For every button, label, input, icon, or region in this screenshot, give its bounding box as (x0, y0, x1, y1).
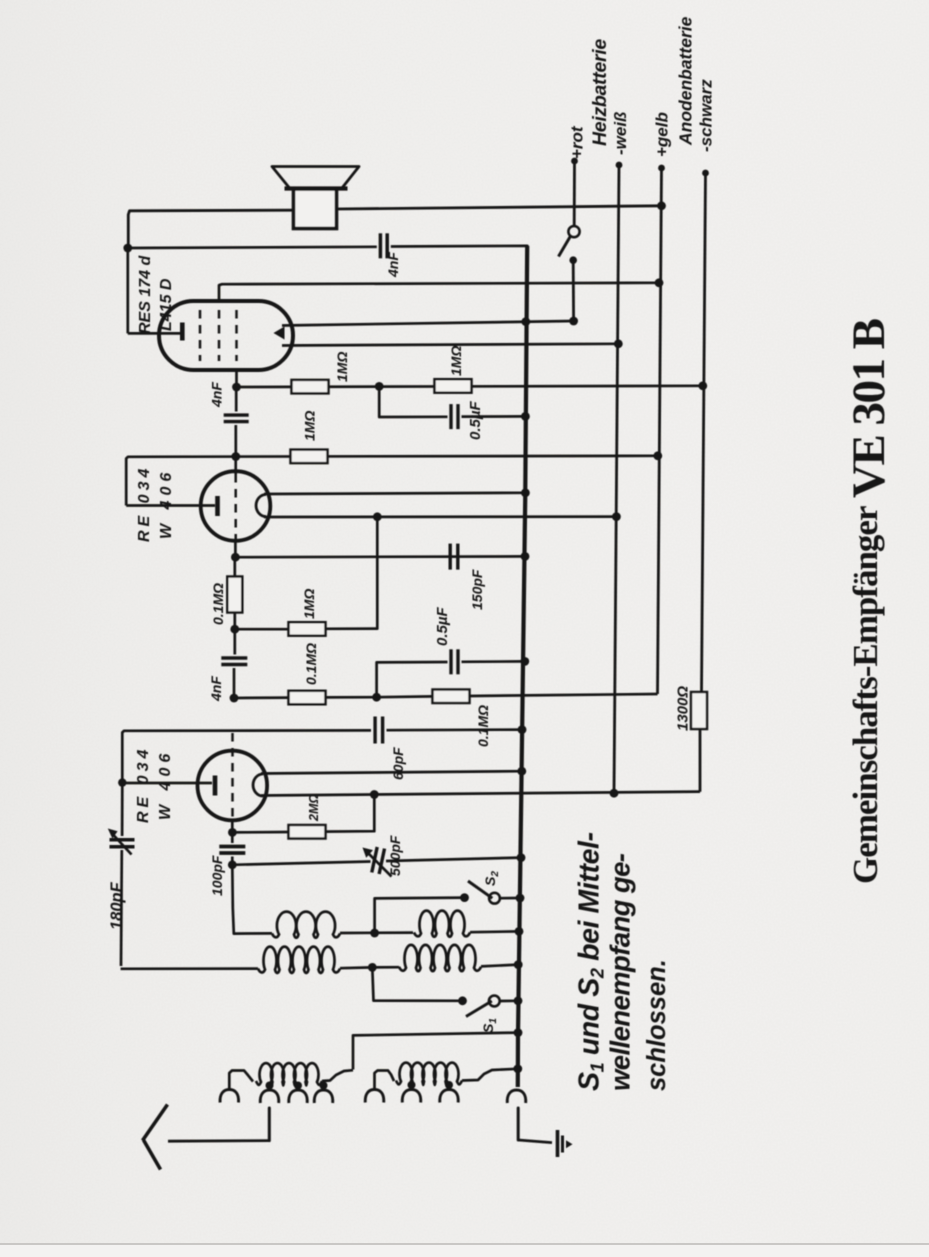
svg-text:1MΩ: 1MΩ (448, 346, 464, 376)
svg-text:0.5µF: 0.5µF (467, 400, 484, 440)
svg-text:0.1MΩ: 0.1MΩ (210, 583, 226, 625)
antenna coil right with taps (375, 1071, 395, 1091)
antenna coil left with taps (229, 1071, 253, 1091)
wire+coil row2 (RF transformer primary) (121, 967, 258, 970)
wire V2 grid-cap rail with 150pF (234, 541, 237, 557)
wire 0.5uF branch to bus (377, 662, 448, 697)
switch (battery on/off) on rot lead (568, 226, 579, 237)
wire rail 629 with 1M to V2 anode line (235, 628, 289, 631)
wire filament+ rail tube V3 to switch (282, 321, 574, 326)
wire antenna link rail (514, 1028, 523, 1037)
svg-text:+rot: +rot (568, 125, 587, 159)
svg-text:Anodenbatterie: Anodenbatterie (676, 16, 696, 146)
anode plate bar tube V1 (122, 782, 212, 785)
wire S1 branch (372, 967, 462, 1000)
grid wire (dashed) tube V2 (234, 457, 237, 475)
svg-text:Gemeinschafts-Empfänger: Gemeinschafts-Empfänger (846, 506, 885, 884)
wire control grid rail tube V3 (235, 370, 238, 387)
wire rail 500pF to bus (228, 860, 237, 869)
svg-text:60pF: 60pF (390, 747, 406, 780)
switch S1 (466, 1001, 492, 1017)
wire 2M branch (325, 795, 374, 832)
capacitor 180pF (variable) (121, 783, 124, 836)
svg-text:500pF: 500pF (387, 835, 403, 876)
terminal +rot (Heizbatterie +) (571, 158, 578, 165)
switch S2 (468, 881, 492, 898)
svg-text:-schwarz: -schwarz (697, 79, 716, 152)
earth (ground) symbol (556, 1130, 560, 1157)
main bus wire (vertical) (518, 246, 527, 1087)
capacitor 500pF (trimmer) (372, 847, 385, 874)
svg-text:4nF: 4nF (209, 382, 225, 408)
resistor 1M (grid leak V2) (291, 450, 328, 464)
tube V2 RE 034 envelope (201, 471, 271, 541)
svg-text:1MΩ: 1MΩ (302, 411, 318, 441)
svg-text:RES 174 d: RES 174 d (137, 255, 154, 334)
svg-text:2MΩ: 2MΩ (307, 794, 321, 822)
capacitor 0.5uF (449, 404, 452, 429)
filament tube V3 (274, 327, 285, 340)
resistor 0.1M (433, 690, 470, 704)
junction V1 anode / 180pF (118, 778, 126, 786)
svg-text:0.5µF: 0.5µF (434, 606, 451, 646)
wire S2 branch (375, 898, 465, 933)
anode plate bar tube V3 (180, 323, 185, 341)
tap dots antenna coil right (408, 1081, 416, 1089)
grid wires (dashed) tube V3 (199, 310, 202, 361)
svg-text:100pF: 100pF (209, 855, 225, 896)
capacitor 4nF (coupling V1-V2) (233, 629, 236, 654)
wire 0.5uF branch (379, 386, 447, 417)
resistor 0.1M (289, 691, 326, 705)
svg-text:VE 301 B: VE 301 B (843, 318, 895, 498)
tube V1 RE 034 envelope (198, 751, 268, 821)
resistor 1M (anode load V2) (289, 622, 326, 636)
filament tube V1 (253, 774, 263, 796)
terminal +gelb (Anodenbatterie +) (658, 165, 665, 172)
junction grid divider (375, 382, 384, 391)
svg-text:RE 034: RE 034 (135, 746, 152, 823)
svg-text:RE 034: RE 034 (136, 465, 153, 542)
svg-text:W 406: W 406 (157, 749, 174, 820)
wire+coil row1 (RF transformer secondary) (232, 865, 272, 934)
svg-text:schlossen.: schlossen. (643, 959, 671, 1091)
svg-text:4nF: 4nF (208, 676, 224, 702)
capacitor 150pF (449, 544, 452, 570)
wire rail 730 with 60pF (122, 730, 371, 783)
svg-text:L415 D: L415 D (158, 278, 175, 331)
wire filament- rail V1 to -schwarz side (261, 792, 700, 796)
svg-text:1300Ω: 1300Ω (675, 686, 692, 731)
resistor 1M (grid stopper) (292, 380, 329, 394)
wire filament- rail tube V3 to -weiss (282, 344, 618, 346)
svg-text:wellenempfang ge-: wellenempfang ge- (605, 853, 636, 1091)
svg-text:0.1MΩ: 0.1MΩ (475, 705, 491, 747)
earth lead wire (517, 1108, 520, 1140)
grid wire (dashed) tube V1 (231, 733, 234, 818)
wire filament- rail V2 to -weiss (264, 515, 616, 518)
wire rail 697 to +gelb (230, 694, 239, 703)
socket hook chassis (bus end) (507, 1090, 526, 1103)
socket hooks antenna left (220, 1090, 239, 1103)
svg-text:+gelb: +gelb (653, 112, 672, 157)
svg-text:150pF: 150pF (469, 569, 485, 610)
resistor 1300 (691, 692, 707, 729)
svg-text:180pF: 180pF (108, 881, 126, 930)
filament tube V2 (256, 495, 266, 517)
capacitor 100pF (grid) (231, 820, 234, 843)
wire filament+ rail V2 to bus (264, 493, 525, 494)
capacitor 4nF (coupling V2-V3) (235, 387, 238, 412)
svg-text:Heizbatterie: Heizbatterie (589, 39, 611, 146)
anode plate bar tube V2 (126, 504, 215, 507)
junction rail 629 (230, 625, 239, 634)
svg-text:0.1MΩ: 0.1MΩ (303, 643, 319, 685)
svg-text:-weiß: -weiß (611, 112, 630, 155)
antenna arrow symbol (143, 1105, 168, 1141)
svg-text:1MΩ: 1MΩ (334, 352, 350, 382)
resistor 0.1M (vertical) (233, 557, 236, 577)
wire filament+ rail V1 to bus (261, 771, 522, 773)
svg-text:4nF: 4nF (385, 252, 401, 278)
wire anode lead tube V3 (126, 248, 129, 333)
tap dots antenna coil left (266, 1082, 274, 1090)
svg-text:W 406: W 406 (158, 468, 175, 539)
tube V3 RES 174 d envelope (159, 301, 293, 370)
capacitor 4nF (anode bypass) (379, 233, 383, 258)
terminal -weiss (Heizbatterie -) (616, 162, 623, 169)
wire anode rail with 4nF to bus top (123, 244, 132, 253)
resistor 1M (to -schwarz) (435, 379, 472, 393)
loudspeaker (272, 167, 359, 189)
terminal -schwarz (Anodenbatterie -) (702, 170, 709, 177)
antenna lead wire (268, 1108, 271, 1141)
resistor 2M (grid leak V1) (289, 825, 326, 839)
wire speaker rail to +gelb (128, 210, 293, 248)
socket hooks antenna right (365, 1090, 384, 1103)
capacitor 0.5uF (449, 649, 452, 674)
svg-text:S1 und S2 bei Mittel-: S1 und S2 bei Mittel- (574, 832, 608, 1091)
capacitor 60pF (373, 717, 376, 744)
wire grid rail tube V2 to +gelb (231, 452, 240, 461)
wire screen grid rail tube V3 to +gelb (219, 283, 659, 301)
svg-text:1MΩ: 1MΩ (301, 589, 317, 619)
